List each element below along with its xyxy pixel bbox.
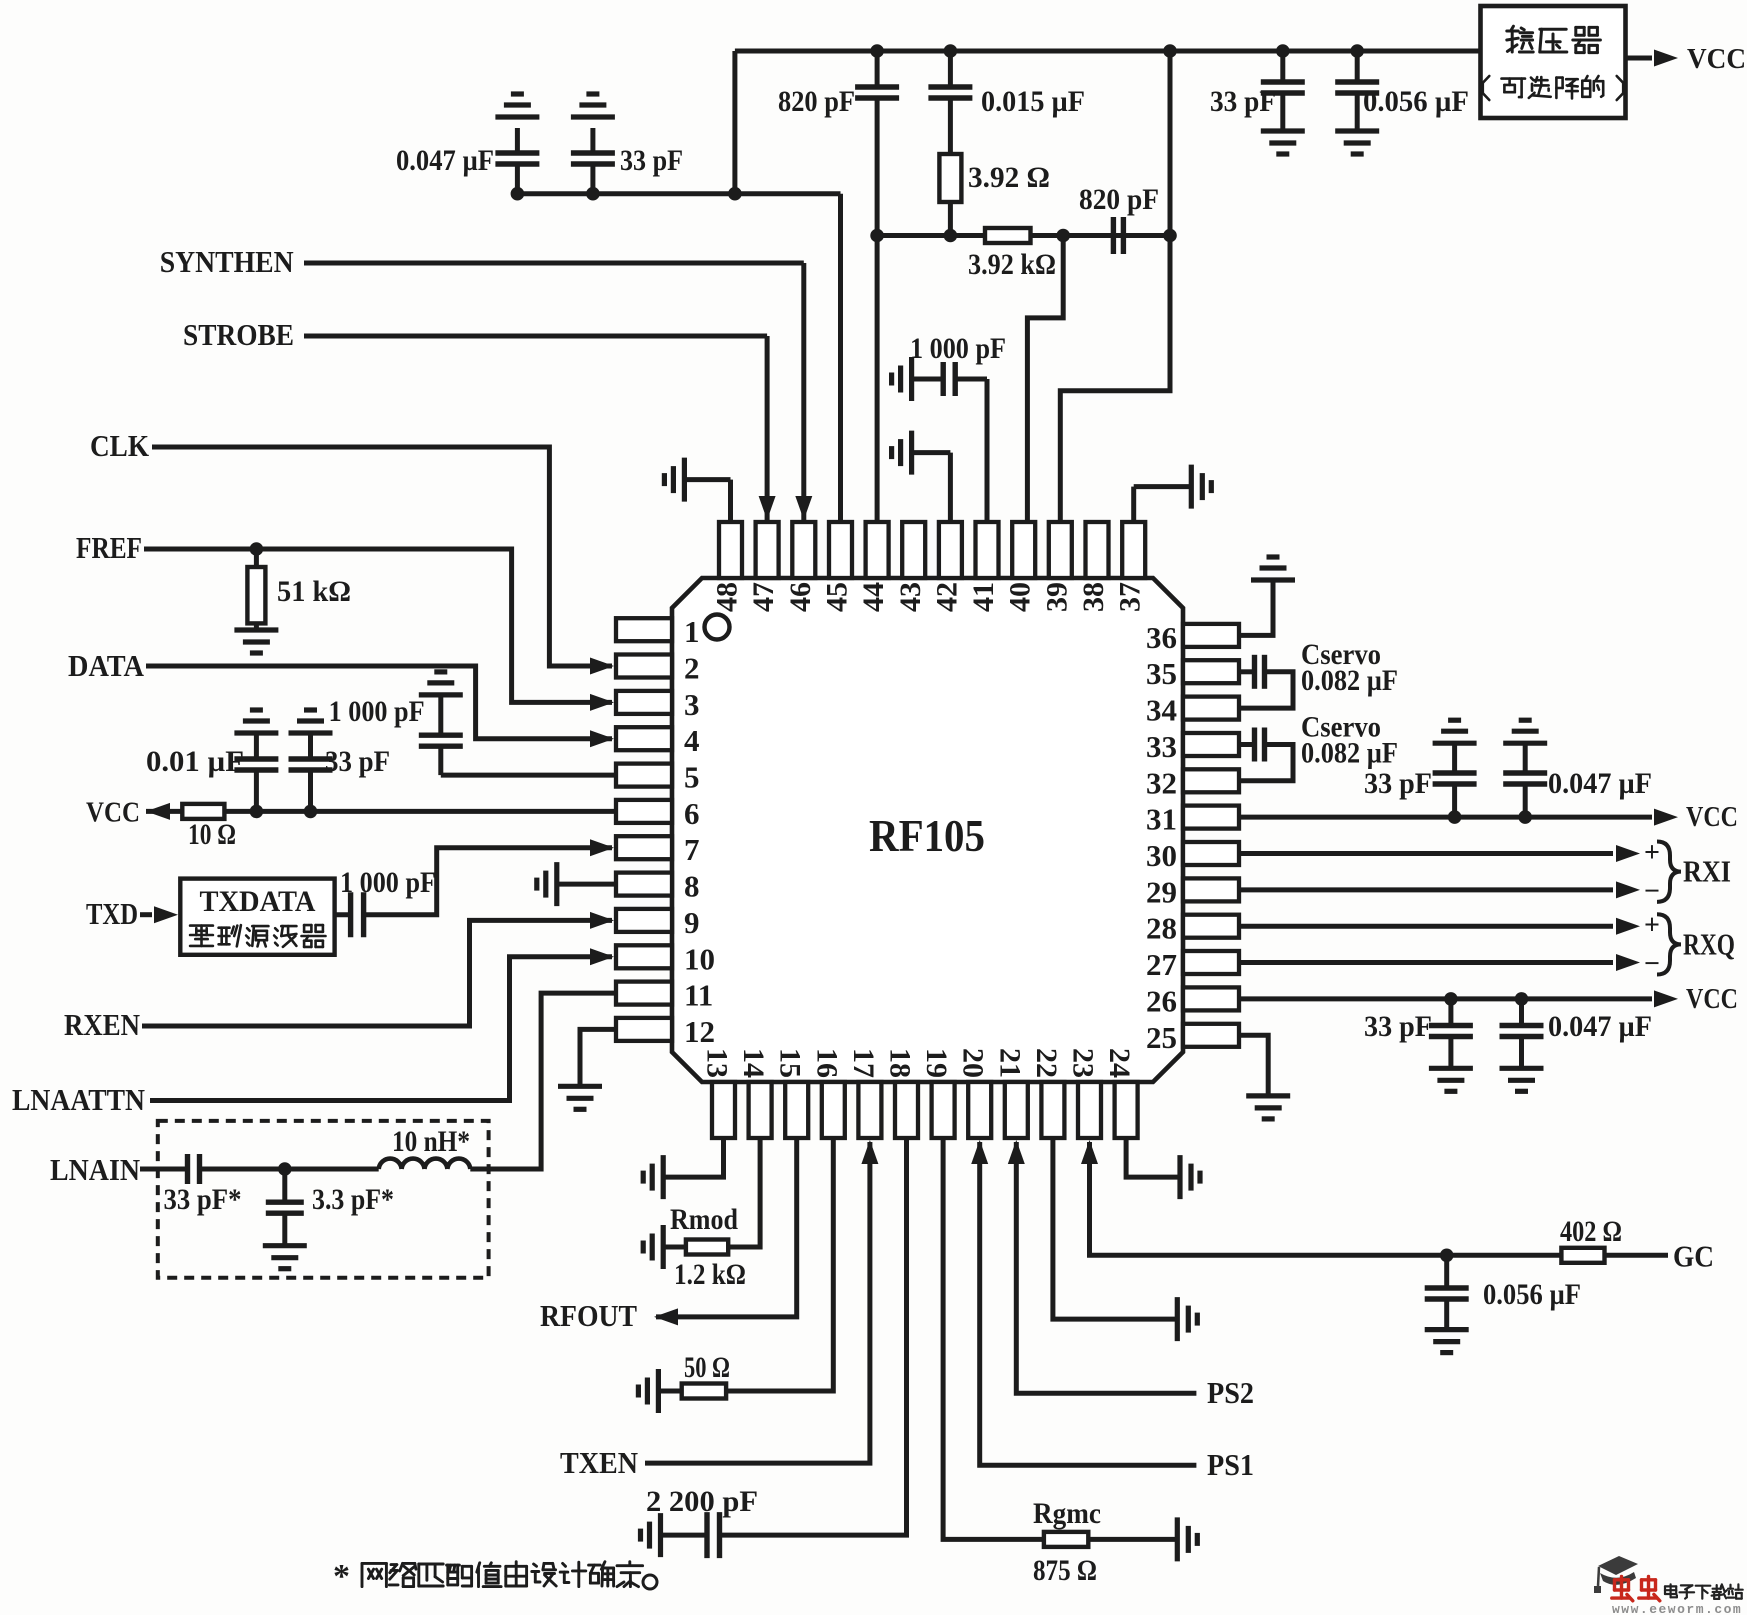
wire pin 25 to ground: [1239, 1035, 1268, 1096]
capacitor 1000pF (TXD series): [335, 912, 351, 917]
junction 33 pF (pin26 row): [1444, 992, 1458, 1006]
junction bus/riser: [728, 187, 742, 201]
resistor 51kohm: [254, 549, 259, 567]
watermark 电子下载站: [1665, 1584, 1677, 1597]
IC U1 RF105 body (48-pin QFP outline): [672, 578, 1183, 1082]
svg-text:FREF: FREF: [76, 530, 142, 565]
svg-text:26: 26: [1146, 983, 1177, 1018]
arrow SYNTHEN into pin 46: [795, 496, 812, 520]
capacitor Cservo 2 (pins 33-32): [1239, 742, 1255, 747]
svg-text:38: 38: [1077, 582, 1110, 612]
svg-text:1.2 kΩ: 1.2 kΩ: [674, 1258, 746, 1291]
wire PS1 to pin 20: [980, 1142, 1197, 1465]
svg-text:402 Ω: 402 Ω: [1560, 1215, 1622, 1248]
LNA matching network dashed box: [158, 1121, 489, 1278]
ground above 0.047uF: [495, 114, 539, 119]
brace RXI: [1657, 842, 1681, 902]
pin 40 (top): [1012, 522, 1035, 578]
arrow pin 29: [1616, 881, 1640, 898]
capacitor 33 pF (pin26 row): [1448, 999, 1453, 1026]
svg-text:50 Ω: 50 Ω: [684, 1351, 730, 1384]
ground above 33 pF (pin31 row): [1433, 741, 1477, 746]
arrow pin 28: [1616, 918, 1640, 935]
arrow VCC (pin31): [1654, 809, 1678, 826]
wire pin 36 to ground: [1239, 580, 1273, 635]
ground above pin 36: [1251, 577, 1295, 582]
svg-text:11: 11: [684, 978, 713, 1013]
ground left of Rmod: [661, 1225, 666, 1269]
junction rail/riser x1170: [1163, 44, 1177, 58]
wire GC line to pin 23: [1090, 1142, 1669, 1255]
pin 8 (left): [616, 873, 672, 896]
pin 9 (left): [616, 909, 672, 932]
svg-text:48: 48: [711, 582, 744, 612]
wire 3.92k junction to pin 40: [1027, 236, 1063, 523]
ground below 33 pF (pin26 row): [1429, 1066, 1473, 1071]
wire pin 13 to ground: [663, 1138, 723, 1177]
svg-text:0.082 µF: 0.082 µF: [1301, 664, 1398, 697]
svg-text:33 pF: 33 pF: [1210, 85, 1276, 118]
arrow TXEN into pin 17: [861, 1140, 878, 1164]
pin 32 (right): [1183, 769, 1239, 792]
svg-text:16: 16: [810, 1048, 843, 1078]
svg-text:0.047 µF: 0.047 µF: [1548, 1010, 1652, 1043]
junction row2/3.92k right: [1056, 229, 1070, 243]
ground left of 2200pF: [658, 1513, 663, 1557]
ground left of pin 13: [661, 1155, 666, 1199]
ground left of pin 48 wire: [682, 458, 687, 502]
pin 19 (bottom): [932, 1082, 955, 1138]
pin 20 (bottom): [968, 1082, 991, 1138]
svg-text:34: 34: [1146, 693, 1177, 728]
wire pin 30 RX output: [1239, 851, 1613, 856]
svg-text:35: 35: [1146, 656, 1177, 691]
wire pin 27 RX output: [1239, 960, 1613, 965]
resistor 50ohm: [682, 1384, 726, 1399]
wire 3.92ohm to row2: [948, 202, 953, 236]
pin 48 (top): [719, 522, 742, 578]
svg-text:*: *: [333, 1558, 350, 1595]
watermark graduation cap icon: [1598, 1556, 1638, 1575]
junction rail/0.015uF: [944, 44, 958, 58]
pin 43 (top): [902, 522, 925, 578]
svg-text:1 000 pF: 1 000 pF: [340, 866, 436, 899]
label regulator 稳压器: [1507, 26, 1533, 52]
wire DATA to pin 4: [146, 666, 612, 739]
svg-text:3.3 pF*: 3.3 pF*: [312, 1183, 394, 1216]
wire 1000pF to pin 7: [364, 848, 612, 915]
svg-text:44: 44: [857, 582, 890, 612]
svg-text:875 Ω: 875 Ω: [1033, 1554, 1097, 1587]
svg-text:3.92 kΩ: 3.92 kΩ: [968, 248, 1056, 281]
ground below 0.047 µF (pin26 row): [1500, 1066, 1544, 1071]
svg-text:820 pF: 820 pF: [1079, 183, 1159, 216]
pin 28 (right): [1183, 915, 1239, 938]
svg-text:VCC: VCC: [1687, 43, 1746, 75]
pin 5 (left): [616, 764, 672, 787]
watermark 虫虫 (red): [1612, 1577, 1633, 1601]
TXDATA shaping filter box: [180, 879, 334, 955]
wire Rgmc to ground: [1088, 1537, 1177, 1542]
wire pin 24 to ground: [1126, 1138, 1180, 1177]
pin 3 (left): [616, 691, 672, 714]
label regulator (可选择的): [1483, 76, 1490, 100]
pin 17 (bottom): [858, 1082, 881, 1138]
svg-text:PS2: PS2: [1207, 1375, 1254, 1410]
ground above 33pF: [571, 114, 615, 119]
ground above 33pF (left): [289, 730, 333, 735]
svg-text:TXD: TXD: [86, 896, 138, 931]
wire LNAATTN to pin 10: [150, 957, 612, 1101]
wire pin 15 RFOUT: [656, 1138, 797, 1317]
brace RXQ: [1657, 914, 1681, 974]
junction row2/3.92k left: [944, 229, 958, 243]
pin 27 (right): [1183, 951, 1239, 974]
svg-text:40: 40: [1004, 582, 1037, 612]
resistor 10ohm: [182, 804, 224, 819]
svg-text:RF105: RF105: [869, 810, 985, 861]
junction rail/33 pF: [1276, 44, 1290, 58]
wire 1000pF to pin 5: [441, 773, 616, 778]
pin 37 (top): [1122, 522, 1145, 578]
junction rail/0.056 µF: [1350, 44, 1364, 58]
svg-text:37: 37: [1114, 582, 1147, 612]
svg-text:45: 45: [821, 582, 854, 612]
svg-text:15: 15: [774, 1048, 807, 1078]
wire SYNTHEN: [304, 261, 804, 266]
svg-text:3: 3: [684, 687, 700, 722]
capacitor 820pF (row2 series): [1111, 217, 1116, 254]
capacitor 0.056uF (GC): [1444, 1255, 1449, 1288]
junction rail/820pF: [870, 44, 884, 58]
svg-text:3.92 Ω: 3.92 Ω: [968, 161, 1050, 194]
svg-text:10: 10: [684, 941, 715, 976]
arrow LNAATTN into pin 10: [590, 948, 614, 965]
wire pin 16 to 50ohm: [726, 1138, 833, 1391]
pin 14 (bottom): [749, 1082, 772, 1138]
ground below 3.3pF*: [263, 1243, 307, 1248]
svg-text:0.047 µF: 0.047 µF: [396, 144, 494, 177]
svg-text:5: 5: [684, 760, 700, 795]
pin 26 (right): [1183, 987, 1239, 1010]
svg-text:7: 7: [684, 832, 700, 867]
svg-text:VCC: VCC: [1686, 983, 1738, 1015]
svg-text:0.015 µF: 0.015 µF: [981, 85, 1085, 118]
wire row2 bus: [877, 233, 1170, 238]
svg-text:1 000 pF: 1 000 pF: [910, 332, 1006, 365]
arrow pin 27: [1616, 954, 1640, 971]
ground above 0.01uF: [234, 730, 278, 735]
ground above 1000pF (pin5): [419, 692, 463, 697]
svg-text:21: 21: [993, 1048, 1026, 1078]
svg-text:33 pF: 33 pF: [620, 144, 683, 177]
wire top VCC rail: [735, 49, 1481, 54]
svg-text:39: 39: [1040, 582, 1073, 612]
svg-text:VCC: VCC: [1686, 801, 1738, 833]
svg-text:19: 19: [920, 1048, 953, 1078]
svg-text:0.01 µF: 0.01 µF: [146, 745, 244, 778]
pin 44 (top): [866, 522, 889, 578]
svg-text:23: 23: [1067, 1048, 1100, 1078]
capacitor 0.047 µF (pin26 row): [1519, 999, 1524, 1026]
arrow DATA into pin 4: [590, 730, 614, 747]
arrow FREF into pin 3: [590, 694, 614, 711]
arrow VCC left: [146, 803, 170, 820]
wire pin 26 VCC row: [1239, 996, 1652, 1001]
capacitor 33pF (left): [308, 733, 313, 759]
ground below 0.056uF (GC): [1425, 1327, 1469, 1332]
svg-text:33: 33: [1146, 729, 1177, 764]
wire riser to pin 39: [1060, 236, 1170, 523]
pin 45 (top): [829, 522, 852, 578]
pin 10 (left): [616, 945, 672, 968]
resistor 402ohm: [1561, 1248, 1604, 1263]
wire pin 8 to ground: [557, 882, 616, 887]
svg-text:VCC: VCC: [86, 796, 140, 828]
pin 24 (bottom): [1115, 1082, 1138, 1138]
arrow VCC (pin26): [1654, 990, 1678, 1007]
svg-text:RXQ: RXQ: [1683, 926, 1735, 961]
junction 0.047uF/bus: [511, 187, 525, 201]
pin 21 (bottom): [1005, 1082, 1028, 1138]
label 整形滤波器: [190, 926, 213, 946]
wire pin 28 RX output: [1239, 924, 1613, 929]
svg-text:LNAIN: LNAIN: [50, 1152, 140, 1187]
capacitor 2200pF: [704, 1512, 709, 1558]
wire PS2 to pin 21: [1016, 1142, 1196, 1393]
pin 30 (right): [1183, 842, 1239, 865]
arrow TXD into box: [154, 906, 178, 923]
wire inductor to pin 11: [470, 993, 616, 1169]
ground left of pin 8: [554, 862, 559, 906]
arrow CLK into pin 2: [590, 658, 614, 675]
capacitor 0.056 µF (top right): [1355, 51, 1360, 82]
svg-text:RFOUT: RFOUT: [540, 1298, 637, 1333]
wire 33pF* to junction: [200, 1167, 379, 1172]
svg-text:0.082 µF: 0.082 µF: [1301, 737, 1398, 770]
capacitor 0.015uF: [948, 51, 953, 87]
wire pin 19 to Rgmc: [943, 1138, 1044, 1539]
svg-text:SYNTHEN: SYNTHEN: [160, 244, 294, 279]
capacitor 1000pF (pin41): [912, 377, 944, 382]
svg-text:33 pF: 33 pF: [325, 745, 390, 778]
pin-1 index circle: [705, 615, 730, 640]
capacitor 0.047 µF (pin31 row): [1523, 784, 1528, 817]
junction 33pF/bus: [586, 187, 600, 201]
svg-text:0.056 µF: 0.056 µF: [1483, 1278, 1581, 1311]
capacitor 0.047uF (top-left): [515, 128, 520, 153]
junction 0.047 µF (pin26 row): [1515, 992, 1529, 1006]
svg-text:CLK: CLK: [90, 428, 149, 463]
wire FREF to pin 3: [144, 549, 612, 702]
svg-text:10 Ω: 10 Ω: [188, 818, 236, 851]
svg-text:Rmod: Rmod: [670, 1203, 738, 1236]
svg-text:8: 8: [684, 869, 700, 904]
svg-text:31: 31: [1146, 802, 1177, 837]
junction 33pF/VCC row: [304, 805, 318, 819]
svg-text:LNAATTN: LNAATTN: [12, 1082, 145, 1117]
ground below 33 pF (top right): [1261, 128, 1305, 133]
pin 1 (left): [616, 618, 672, 641]
svg-text:24: 24: [1103, 1048, 1136, 1078]
wire top-left cap bus: [517, 191, 840, 196]
ground below pin 25: [1246, 1093, 1290, 1098]
svg-text:25: 25: [1146, 1020, 1177, 1055]
wire pin 18 to 2200pF: [720, 1138, 907, 1535]
pin 34 (right): [1183, 697, 1239, 720]
svg-text:51 kΩ: 51 kΩ: [277, 575, 351, 608]
pin 33 (right): [1183, 733, 1239, 756]
junction 0.047 µF (pin31 row): [1518, 810, 1532, 824]
ground left of 1000pF (pin41): [909, 357, 914, 401]
pin 39 (top): [1049, 522, 1072, 578]
svg-text:0.056 µF: 0.056 µF: [1363, 85, 1469, 118]
svg-text:32: 32: [1146, 765, 1177, 800]
svg-text:9: 9: [684, 905, 700, 940]
inductor 10nH*: [379, 1159, 471, 1169]
ground right of Rgmc: [1175, 1517, 1180, 1561]
wire LNAIN to 33pF*: [140, 1167, 188, 1172]
wire bus down to pin 45: [838, 194, 843, 522]
svg-text:www.eeworm.com: www.eeworm.com: [1612, 1602, 1742, 1615]
wire ground to pin 48: [684, 477, 730, 482]
svg-text:47: 47: [747, 582, 780, 612]
wire pin 37 to ground: [1131, 487, 1136, 522]
svg-text:TXDATA: TXDATA: [200, 885, 316, 918]
pin 12 (left): [616, 1018, 672, 1041]
pin 7 (left): [616, 836, 672, 859]
pin 6 (left): [616, 800, 672, 823]
svg-text:33 pF: 33 pF: [1364, 1010, 1432, 1043]
svg-text:RXEN: RXEN: [64, 1007, 140, 1042]
ground right of pin 37: [1189, 465, 1194, 509]
svg-text:30: 30: [1146, 838, 1177, 873]
svg-text:14: 14: [737, 1048, 770, 1078]
ground below 0.056 µF (top right): [1335, 128, 1379, 133]
svg-text:10 nH*: 10 nH*: [392, 1125, 470, 1158]
svg-text:PS1: PS1: [1207, 1447, 1254, 1482]
capacitor 33 pF (pin31 row): [1452, 784, 1457, 817]
wire 2200pF to ground: [661, 1533, 708, 1538]
svg-text:46: 46: [784, 582, 817, 612]
pin 23 (bottom): [1078, 1082, 1101, 1138]
capacitor 1000pF (pin5): [438, 695, 443, 735]
capacitor 0.01uF: [254, 733, 259, 759]
resistor Rgmc 875ohm: [1044, 1532, 1088, 1547]
svg-text:1: 1: [684, 614, 700, 649]
wire pin 29 RX output: [1239, 887, 1613, 892]
svg-text:6: 6: [684, 796, 700, 831]
wire TXD to filter box: [140, 912, 152, 917]
wire pin 14 to Rmod: [728, 1138, 760, 1247]
junction row2/pin44 branch: [870, 229, 884, 243]
capacitor 3.3pF* (shunt): [282, 1169, 287, 1202]
capacitor 33pF* (series): [185, 1154, 190, 1184]
pin 38 (top): [1086, 522, 1109, 578]
svg-text:28: 28: [1146, 911, 1177, 946]
wire RXEN to pin 9: [142, 920, 612, 1026]
svg-text:20: 20: [957, 1048, 990, 1078]
arrow pin 30: [1616, 845, 1640, 862]
pin 31 (right): [1183, 806, 1239, 829]
pin 46 (top): [792, 522, 815, 578]
svg-text:29: 29: [1146, 874, 1177, 909]
junction GC/0.056uF: [1440, 1249, 1454, 1263]
pin 2 (left): [616, 655, 672, 678]
arrow into pin 7: [590, 839, 614, 856]
wire Rmod to ground: [663, 1245, 686, 1250]
wire ground to pin 42: [912, 450, 951, 455]
resistor Rmod 1.2kohm: [686, 1240, 728, 1255]
junction FREF/51k: [250, 542, 264, 556]
wire pin 22 to ground: [1053, 1138, 1177, 1319]
wire VCC row: [146, 809, 616, 814]
wire 50ohm to ground: [658, 1389, 681, 1394]
junction 0.01uF/VCC row: [250, 805, 264, 819]
svg-text:820 pF: 820 pF: [778, 85, 855, 118]
svg-text:DATA: DATA: [68, 648, 145, 683]
svg-text:GC: GC: [1673, 1238, 1714, 1273]
ground above 0.047 µF (pin31 row): [1503, 741, 1547, 746]
svg-text:1 000 pF: 1 000 pF: [329, 695, 425, 728]
svg-text:2 200 pF: 2 200 pF: [646, 1485, 758, 1518]
pin 18 (bottom): [895, 1082, 918, 1138]
capacitor 33pF (top-left): [590, 128, 595, 153]
svg-text:2: 2: [684, 651, 700, 686]
svg-text:17: 17: [847, 1048, 880, 1078]
pin 4 (left): [616, 727, 672, 750]
arrow PS1 into pin 20: [971, 1140, 988, 1164]
pin 35 (right): [1183, 660, 1239, 683]
svg-text:36: 36: [1146, 620, 1177, 655]
arrow RXEN into pin 9: [590, 912, 614, 929]
arrow GC into pin 23: [1081, 1140, 1098, 1164]
pin 15 (bottom): [785, 1082, 808, 1138]
wire riser x1170: [1168, 51, 1173, 236]
svg-text:27: 27: [1146, 947, 1177, 982]
svg-text:33 pF: 33 pF: [1364, 767, 1432, 800]
capacitor Cservo 1 (pins 35-34): [1239, 669, 1255, 674]
junction 33 pF (pin31 row): [1448, 810, 1462, 824]
arrow RFOUT: [654, 1308, 678, 1325]
voltage regulator box: [1481, 6, 1626, 118]
svg-text:0.047 µF: 0.047 µF: [1548, 767, 1652, 800]
wire pin 31 VCC row: [1239, 815, 1652, 820]
svg-text:TXEN: TXEN: [560, 1445, 638, 1480]
pin 42 (top): [939, 522, 962, 578]
pin 16 (bottom): [822, 1082, 845, 1138]
capacitor 820pF (rail to pin44): [875, 51, 880, 87]
junction LNA node: [278, 1162, 292, 1176]
svg-text:41: 41: [967, 582, 1000, 612]
pin 25 (right): [1183, 1024, 1239, 1047]
pin 22 (bottom): [1041, 1082, 1064, 1138]
ground right of pin 24: [1177, 1155, 1182, 1199]
arrow to VCC (top right): [1654, 50, 1678, 67]
svg-text:22: 22: [1030, 1048, 1063, 1078]
arrow PS2 into pin 21: [1008, 1140, 1025, 1164]
wire STROBE: [304, 334, 767, 339]
pin 36 (right): [1183, 624, 1239, 647]
svg-text:43: 43: [894, 582, 927, 612]
svg-text:RXI: RXI: [1683, 854, 1731, 889]
wire 1000pF to pin 41: [985, 379, 990, 522]
svg-text:18: 18: [884, 1048, 917, 1078]
svg-text:Rgmc: Rgmc: [1033, 1497, 1101, 1530]
wire regulator output: [1626, 56, 1653, 61]
ground left of pin 42 wire: [909, 431, 914, 475]
ground below 51kohm: [234, 627, 278, 632]
